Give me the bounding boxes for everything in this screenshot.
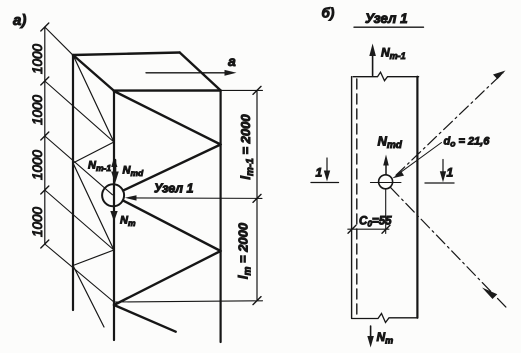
svg-text:a: a (228, 53, 236, 69)
svg-text:1000: 1000 (30, 149, 45, 180)
svg-text:Nm-1: Nm-1 (381, 46, 406, 62)
svg-text:do = 21,6: do = 21,6 (444, 136, 491, 149)
svg-text:Nm-1: Nm-1 (88, 160, 111, 174)
svg-text:Nmd: Nmd (123, 165, 145, 179)
svg-text:Узел 1: Узел 1 (365, 11, 408, 26)
svg-text:a): a) (13, 12, 26, 29)
svg-text:1: 1 (316, 166, 323, 180)
svg-text:lm = 2000: lm = 2000 (236, 222, 254, 279)
svg-text:1000: 1000 (30, 206, 45, 237)
svg-text:C0=55: C0=55 (359, 216, 392, 229)
svg-text:1000: 1000 (30, 43, 45, 74)
svg-text:Nm: Nm (377, 330, 394, 346)
svg-text:1: 1 (447, 166, 454, 180)
svg-text:Узел 1: Узел 1 (154, 182, 194, 196)
svg-text:lm-1 = 2000: lm-1 = 2000 (238, 114, 256, 180)
svg-text:Nmd: Nmd (378, 134, 403, 152)
svg-text:б): б) (322, 6, 335, 21)
svg-text:Nm: Nm (120, 215, 136, 229)
svg-text:1000: 1000 (30, 94, 45, 125)
